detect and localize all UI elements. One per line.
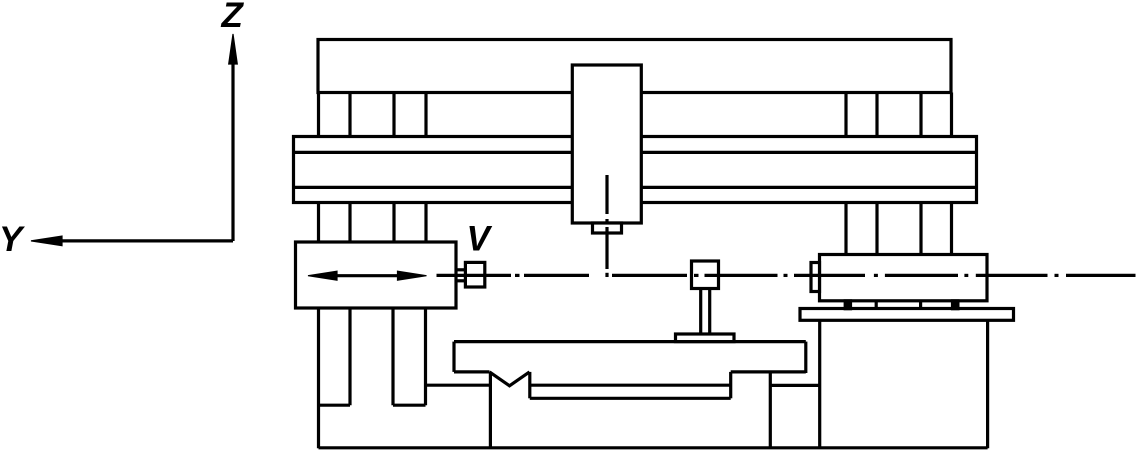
table bottom left piece <box>454 370 490 373</box>
table top line <box>454 340 806 343</box>
cross-rail inner line lower <box>294 186 977 189</box>
left column slat 4 upper <box>424 93 427 137</box>
feed arrow left head <box>308 271 337 280</box>
black pad right <box>951 299 960 310</box>
leg 2 left edge <box>391 308 394 405</box>
leg 2 bottom <box>393 404 426 407</box>
base bottom line <box>319 446 988 449</box>
pedestal left edge <box>818 320 821 448</box>
cross-rail inner line upper <box>294 151 977 154</box>
pad separator 2 <box>919 301 922 309</box>
saddle upper line <box>530 384 731 387</box>
machine centerline dash-dot <box>437 274 1136 277</box>
leg 1 right edge <box>348 308 351 405</box>
top beam <box>318 40 951 93</box>
stand base <box>676 334 735 342</box>
feed double arrow line <box>333 274 401 277</box>
left column slat 1 upper <box>317 93 320 137</box>
bed line to pedestal <box>770 384 819 387</box>
coupling square <box>465 262 484 287</box>
left column slat 2 lower <box>348 203 351 243</box>
table bottom right piece <box>731 370 806 373</box>
table left edge <box>452 342 455 372</box>
pedestal top plate <box>800 309 1014 321</box>
leg 2 right edge <box>424 308 427 405</box>
table right edge <box>804 342 807 373</box>
feed arrow right head <box>398 271 427 280</box>
saddle right vertical <box>729 372 732 398</box>
cross-rail band outer rect <box>294 137 977 203</box>
right column slat 1 lower <box>844 203 847 255</box>
axis Z line <box>231 62 234 241</box>
bed line left of V-notch <box>426 384 490 387</box>
neck lower line <box>456 279 465 282</box>
axis Y arrowhead <box>31 236 62 246</box>
spindle head box <box>572 65 641 223</box>
saddle left vertical <box>528 372 531 398</box>
left column slat 3 lower <box>392 203 395 243</box>
right column slat 1 upper <box>844 93 847 137</box>
right column slat 3 lower <box>919 203 922 255</box>
neck upper line <box>456 268 465 271</box>
stand stem right <box>708 289 711 335</box>
black pad left <box>844 299 853 310</box>
svg-text:V: V <box>467 219 493 258</box>
pad separator 1 <box>875 301 878 309</box>
axis Y line <box>60 239 233 242</box>
bed divider vertical <box>489 372 492 448</box>
spindle axis dash-dot line <box>605 175 608 277</box>
saddle lower line <box>530 397 731 400</box>
table V-notch <box>490 372 530 386</box>
right column slat 2 upper <box>875 93 878 137</box>
headstock box <box>296 242 457 308</box>
tailstock box <box>820 255 988 301</box>
stand stem left <box>699 289 702 335</box>
svg-text:Y: Y <box>0 220 25 259</box>
leg 1 bottom <box>319 404 351 407</box>
left column slat 4 lower <box>424 203 427 243</box>
left column slat 2 upper <box>348 93 351 137</box>
right column slat 4 upper <box>950 93 953 137</box>
right column slat 2 lower <box>875 203 878 255</box>
base left edge <box>317 308 320 448</box>
workpiece square <box>692 261 719 289</box>
tailstock left stub <box>811 263 820 292</box>
spindle nozzle <box>593 223 622 233</box>
axis Z arrowhead <box>229 34 238 64</box>
svg-text:Z: Z <box>221 0 245 35</box>
bed vertical right of table <box>769 373 772 448</box>
pedestal right edge <box>986 320 989 448</box>
right column slat 4 lower <box>950 203 953 255</box>
left column slat 3 upper <box>392 93 395 137</box>
right column slat 3 upper <box>919 93 922 137</box>
left column slat 1 lower <box>317 203 320 243</box>
